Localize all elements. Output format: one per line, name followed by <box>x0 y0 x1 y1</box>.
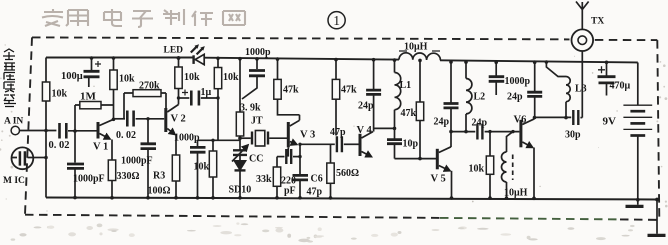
svg-text:R3: R3 <box>153 171 165 182</box>
wire: base node vertical <box>74 105 76 163</box>
transistor V3 <box>288 115 315 148</box>
wire: left vertical from V+ rail corner to ground bus <box>45 58 47 198</box>
svg-text:9V: 9V <box>603 116 617 128</box>
figure number ① <box>328 12 345 29</box>
svg-text:1000p: 1000p <box>245 47 271 58</box>
svg-text:0. 02: 0. 02 <box>49 140 70 151</box>
svg-text:24p: 24p <box>434 117 450 128</box>
svg-text:V 4: V 4 <box>357 125 373 136</box>
resistor 10k (varactor bias upper) <box>214 57 239 141</box>
transistor V6 <box>514 115 535 148</box>
wire: V5 base line <box>395 158 437 160</box>
resistor 47k V5 base bias <box>401 59 424 161</box>
svg-text:A IN: A IN <box>4 117 23 127</box>
capacitor 24p V5 collector tank <box>434 60 459 147</box>
svg-text:1000pF: 1000pF <box>73 174 105 185</box>
wire: AF/bias node horizontal <box>198 139 241 141</box>
svg-text:L3: L3 <box>575 84 587 95</box>
watermark text 实用电子制作网 (light gray, pseudo-glyphs) <box>42 9 245 27</box>
transistor V5 <box>431 147 452 185</box>
svg-text:10k: 10k <box>469 164 485 175</box>
resistor 10k V6 base <box>469 130 494 200</box>
resistor 47k V3 collector load <box>274 57 300 115</box>
microphone MIC <box>3 147 46 186</box>
svg-text:1M: 1M <box>80 91 97 103</box>
node A IN terminal <box>4 117 56 135</box>
capacitor 10p <box>387 128 419 158</box>
battery 9V <box>603 63 653 205</box>
resistor 10k (input bias) <box>42 82 67 101</box>
svg-text:LED: LED <box>164 46 184 56</box>
node V1 collector <box>112 118 116 122</box>
capacitor 1u electrolytic coupling <box>177 87 218 106</box>
svg-text:47p: 47p <box>307 187 323 198</box>
svg-text:0. 02: 0. 02 <box>116 130 136 141</box>
capacitor C6 47p V3 emitter <box>293 143 323 200</box>
svg-text:100Ω: 100Ω <box>148 186 171 197</box>
diode SD10 varactor <box>229 161 252 200</box>
inductor L3 <box>545 60 587 119</box>
junction A-IN node <box>44 129 48 133</box>
svg-text:TX: TX <box>591 17 604 27</box>
resistor 47k V4 base bias <box>332 58 357 136</box>
resistor 33k V3 base bias <box>256 157 281 200</box>
capacitor 100u electrolytic <box>61 56 101 87</box>
resistor 330ohm V1 emitter <box>108 140 139 200</box>
svg-text:10k: 10k <box>52 89 68 100</box>
svg-text:1μ: 1μ <box>201 87 212 98</box>
svg-text:V 5: V 5 <box>431 174 446 185</box>
resistor 560ohm <box>327 144 359 199</box>
svg-text:470μ: 470μ <box>610 81 631 92</box>
LED (in series with rail) <box>164 44 205 64</box>
svg-text:10μH: 10μH <box>404 42 428 53</box>
svg-text:47k: 47k <box>341 85 357 96</box>
resistor 270k V2 bias <box>124 81 166 119</box>
svg-text:1000pF: 1000pF <box>121 156 153 167</box>
resistor 10k V2 collector load <box>175 56 200 88</box>
svg-text:24p: 24p <box>507 92 523 103</box>
svg-text:47p: 47p <box>330 127 346 138</box>
ground (battery) <box>626 205 644 208</box>
inductor 10uH choke (top, on rail) <box>399 42 440 61</box>
svg-text:330Ω: 330Ω <box>117 171 140 182</box>
svg-text:47k: 47k <box>401 108 417 119</box>
svg-text:560Ω: 560Ω <box>336 168 359 179</box>
capacitor 1000p (osc supply bypass) <box>242 47 271 99</box>
transistor V1 <box>93 119 114 152</box>
svg-text:SD10: SD10 <box>229 185 252 196</box>
V+ supply rail (top) <box>46 58 638 63</box>
variable capacitor CC <box>232 138 263 164</box>
resistor 10k V1 collector load <box>110 56 135 120</box>
node V1 base <box>73 129 77 133</box>
capacitor 0.02 input coupling <box>49 123 97 151</box>
capacitor 1000p (AF node bypass) <box>174 133 206 200</box>
svg-text:CC: CC <box>249 154 263 165</box>
svg-text:47k: 47k <box>283 85 299 96</box>
svg-text:10k: 10k <box>223 72 239 83</box>
capacitor 1000pF (V2 base bypass) <box>121 117 156 199</box>
wire: V5 emitter to bus <box>451 171 453 198</box>
wire: V3 base lower + 220pF feedback <box>277 147 300 196</box>
svg-text:pF: pF <box>284 186 296 197</box>
capacitor 0.02 interstage coupling <box>114 111 165 142</box>
svg-text:30p: 30p <box>565 130 581 141</box>
capacitor 1000pF (base to ground) <box>67 164 105 199</box>
transistor V2 <box>166 89 186 135</box>
svg-text:L2: L2 <box>474 92 486 103</box>
svg-text:V 3: V 3 <box>300 130 315 141</box>
svg-text:V6: V6 <box>514 115 527 126</box>
svg-text:10k: 10k <box>184 72 200 83</box>
svg-text:M IC: M IC <box>3 176 25 186</box>
wire: V4 collector to L1 <box>373 127 395 129</box>
svg-text:10k: 10k <box>194 162 210 173</box>
resistor R3 100ohm V2 emitter <box>148 135 180 200</box>
wire: V6 emitter to bus <box>533 148 535 199</box>
inductor L2 <box>464 60 485 133</box>
svg-text:24p: 24p <box>472 118 488 129</box>
inductor L1 <box>393 58 411 130</box>
svg-text:1000p: 1000p <box>174 133 200 144</box>
svg-text:JT: JT <box>251 116 263 127</box>
capacitor 1000p output bypass <box>489 60 531 95</box>
antenna TX terminal <box>572 2 605 118</box>
ground (shield, bottom right) <box>648 198 666 236</box>
svg-text:V 1: V 1 <box>93 142 108 153</box>
svg-text:C6: C6 <box>311 174 323 185</box>
svg-text:33k: 33k <box>256 174 272 185</box>
resistor 3.9k <box>236 57 261 138</box>
svg-text:270k: 270k <box>139 81 160 92</box>
crystal JT <box>238 116 287 147</box>
resistor 1M feedback <box>75 91 114 109</box>
label 金属屏蔽外壳 (vertical, pseudo-glyphs) <box>3 49 16 107</box>
svg-text:24p: 24p <box>358 101 374 112</box>
shield enclosure dashed border (metal screen case) <box>25 37 659 220</box>
svg-text:100μ: 100μ <box>61 71 83 82</box>
capacitor 47p coupling V3-V4 <box>330 127 359 152</box>
transistor V4 <box>357 125 374 157</box>
svg-text:10k: 10k <box>119 74 135 85</box>
ground bus (bottom) <box>46 198 657 200</box>
capacitor 24p coupling V5-V6 <box>472 118 520 140</box>
wire: V3 emitter output node to V4 base <box>300 143 335 145</box>
capacitor 470u electrolytic <box>598 61 631 96</box>
capacitor 30p output coupling <box>535 110 583 141</box>
resistor 10k (varactor bias lower) <box>194 139 217 200</box>
capacitor 24p V4 collector <box>358 58 381 132</box>
capacitor 24p V6 collector <box>507 60 542 119</box>
svg-text:3. 9k: 3. 9k <box>240 103 261 114</box>
inductor 10uH choke (V6 base) <box>502 130 528 200</box>
svg-text:1: 1 <box>333 13 340 28</box>
junction MIC node <box>44 156 48 160</box>
svg-text:10p: 10p <box>403 139 419 150</box>
svg-text:V 2: V 2 <box>171 114 186 125</box>
wire: V5 collector node line <box>451 131 475 133</box>
svg-text:1000p: 1000p <box>505 76 531 87</box>
svg-text:L1: L1 <box>400 80 412 91</box>
